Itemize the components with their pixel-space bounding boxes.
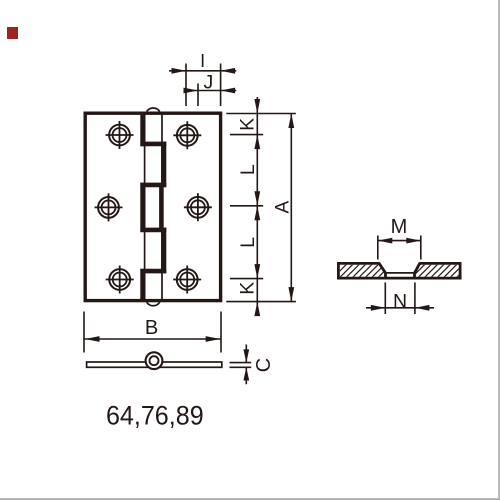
svg-text:J: J (204, 72, 214, 94)
svg-text:N: N (393, 290, 407, 312)
svg-text:64,76,89: 64,76,89 (106, 400, 204, 431)
svg-text:K: K (237, 118, 259, 131)
svg-text:C: C (253, 358, 275, 372)
svg-text:L: L (237, 237, 259, 248)
svg-text:B: B (145, 317, 158, 339)
svg-text:I: I (200, 51, 205, 71)
svg-text:K: K (237, 282, 259, 295)
svg-text:A: A (272, 200, 293, 213)
svg-text:M: M (391, 216, 408, 238)
svg-text:L: L (237, 164, 259, 175)
